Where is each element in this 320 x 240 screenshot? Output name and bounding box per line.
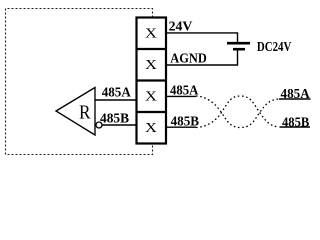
- wire AGND: [166, 51, 238, 66]
- connector cell divider 3: [137, 111, 167, 113]
- svg-text:X: X: [145, 26, 157, 42]
- wire 485B right: [166, 126, 197, 128]
- svg-text:485A: 485A: [281, 87, 311, 102]
- twisted pair wire A: [196, 96, 279, 128]
- receiver U1 triangle: [56, 88, 95, 136]
- svg-text:X: X: [145, 120, 157, 136]
- dashed device enclosure border: [6, 9, 153, 155]
- svg-text:485A: 485A: [102, 85, 132, 100]
- wire 485A right: [166, 95, 197, 97]
- wire 485A left: [95, 99, 137, 101]
- inversion bubble: [96, 122, 102, 128]
- svg-text:485B: 485B: [282, 116, 309, 131]
- svg-text:X: X: [145, 57, 157, 73]
- svg-text:DC24V: DC24V: [257, 40, 291, 55]
- wire underline 485A far right: [279, 98, 311, 100]
- connector cell divider 1: [137, 48, 167, 50]
- wire underline 485B far right: [280, 126, 311, 128]
- svg-text:X: X: [145, 89, 157, 105]
- connector block outline J1: [137, 18, 167, 144]
- svg-text:485A: 485A: [170, 83, 199, 98]
- battery DC24V plate short: [233, 48, 245, 51]
- svg-text:R: R: [79, 101, 91, 123]
- battery DC24V plate long: [227, 42, 250, 45]
- svg-text:485B: 485B: [171, 115, 199, 130]
- svg-text:AGND: AGND: [170, 52, 207, 67]
- svg-text:24V: 24V: [169, 20, 193, 35]
- connector cell divider 2: [137, 79, 167, 81]
- wire 24V: [166, 33, 238, 42]
- twisted pair wire B: [196, 96, 279, 128]
- svg-text:485B: 485B: [100, 112, 129, 127]
- wire 485B left: [102, 124, 137, 126]
